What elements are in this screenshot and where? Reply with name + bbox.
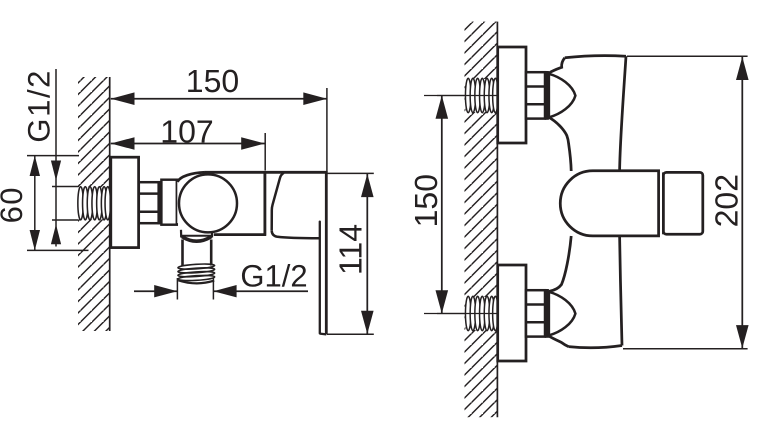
valve body [177,171,266,236]
handle top edge (continuous with body top) [205,171,327,174]
handle blade front face [325,171,328,334]
centerline over bottom ribs [437,313,497,315]
centerline top connection [424,95,497,97]
dim line with arrows [366,173,368,334]
dimension 150 (top): dim line with arrows [111,98,327,100]
top plate (escutcheon) [498,47,526,143]
dimension 107: dim line with arrows [111,143,265,145]
outlet pipe walls [181,240,184,266]
centerline over top ribs [437,95,497,97]
svg-text:150: 150 [186,63,239,99]
body left edge: top chamfer [549,58,565,73]
wall surface line [496,22,498,418]
handle end cap [663,172,702,234]
dimension 202: extension lines [627,55,748,57]
extension line at body front [264,133,266,171]
node: thread bottom tick [52,219,79,221]
handle capsule (end-on) [560,171,658,236]
bottom threaded pipe [437,296,498,330]
wall (hatched) [465,22,498,418]
dimension 150 (right): dim line with arrows [441,96,443,314]
wire: G1/2 leader line [55,69,57,247]
top threaded pipe [437,78,498,112]
dimension 60: dim line with arrows [34,156,36,251]
joint line [662,172,664,234]
centerline bottom connection [424,313,497,315]
svg-text:107: 107 [160,113,213,149]
handle blade bottom cap [320,332,327,335]
body right edge upper [620,56,626,171]
handle blade back edge [319,222,321,334]
extension line at handle front [326,88,328,172]
body bottom edge [569,346,623,348]
connector sleeve [161,180,176,225]
wall (hatched) [78,77,110,331]
handle underside [272,231,320,239]
outlet thread coil [178,263,215,281]
top dome boss [549,74,576,118]
svg-text:114: 114 [333,224,369,275]
svg-text:G1/2: G1/2 [22,69,57,143]
dimension G1/2 (outlet): ticks [176,278,178,300]
bottom dome boss [549,292,576,336]
dim line with arrows [741,56,743,349]
cartridge circle [179,174,237,232]
svg-text:150: 150 [408,174,444,227]
svg-text:60: 60 [0,186,29,223]
hex nut [139,181,162,224]
dimension 60: extension lines [27,155,79,157]
dimension 114: extension lines [327,172,374,174]
svg-text:G1/2: G1/2 [240,259,307,294]
svg-text:202: 202 [709,174,745,227]
outlet boss stubs [180,230,182,238]
body (front/side profile) [549,56,626,348]
wall surface line [109,77,111,331]
bottom plate (escutcheon) [498,265,526,361]
arrow down to thread top [51,161,61,181]
body right edge lower [620,236,622,346]
body left edge: capsule to bottom dome [549,236,571,291]
threaded pipe in wall [78,187,111,220]
body top edge [565,56,626,58]
arrow up to thread bottom [51,224,61,244]
wall plate (escutcheon) [111,157,139,247]
body left edge: bottom chamfer [549,336,569,346]
outlet collar [182,235,212,237]
bottom hex nut [526,289,549,338]
arrows and tails [134,290,177,292]
body left edge: below top dome [549,117,571,171]
handle neck slant [272,173,284,231]
top hex nut [526,71,549,120]
node: thread top tick [52,186,79,188]
